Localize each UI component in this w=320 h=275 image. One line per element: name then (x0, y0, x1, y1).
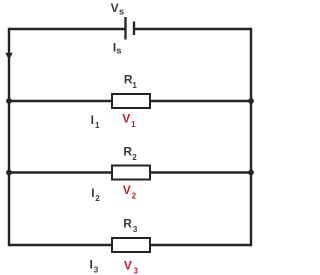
svg-text:V: V (111, 1, 119, 15)
node: junction dot left branch 2 (6, 170, 12, 176)
svg-text:V: V (124, 258, 132, 272)
wire: branch 1 horizontal (9, 100, 251, 102)
label Is (113, 40, 122, 56)
label I1 (91, 113, 100, 130)
svg-text:2: 2 (132, 192, 137, 201)
current arrow Is (down) on left rail (5, 53, 12, 60)
node: junction dot right branch 2 (248, 170, 254, 176)
wire: branch 2 horizontal (9, 171, 251, 173)
svg-text:s: s (119, 6, 124, 17)
svg-text:I: I (90, 258, 93, 272)
svg-text:1: 1 (132, 81, 137, 90)
resistor R2 box (112, 166, 150, 180)
node: junction dot right branch 1 (248, 98, 254, 104)
svg-text:2: 2 (95, 194, 100, 203)
label Vs (111, 1, 125, 17)
svg-text:3: 3 (134, 267, 139, 275)
battery cell Vs: long plate (124, 17, 126, 40)
svg-text:R: R (123, 217, 132, 231)
wire: top-right segment from battery to right corner (134, 28, 251, 30)
svg-text:I: I (91, 186, 94, 200)
battery cell Vs: short plate (133, 22, 135, 36)
svg-text:3: 3 (133, 225, 138, 234)
label R2 (123, 145, 137, 162)
svg-text:V: V (122, 111, 130, 125)
label V1 (122, 111, 136, 129)
label V2 (123, 183, 137, 200)
svg-text:s: s (116, 45, 121, 56)
svg-text:R: R (123, 145, 132, 159)
svg-text:1: 1 (131, 120, 136, 129)
svg-text:1: 1 (95, 121, 100, 130)
svg-text:I: I (91, 113, 94, 127)
wire: right vertical rail (250, 28, 252, 246)
label R1 (124, 73, 137, 90)
wire: top-left segment from left corner to battery (9, 28, 126, 30)
label I3 (90, 258, 99, 275)
label I2 (91, 186, 100, 203)
resistor R1 box (112, 94, 150, 108)
wire: bottom segment (9, 244, 251, 246)
label V3 (124, 258, 139, 275)
svg-text:3: 3 (94, 265, 99, 274)
wire: left vertical rail (8, 28, 10, 246)
label R3 (123, 217, 138, 234)
svg-text:V: V (123, 183, 131, 197)
resistor R3 box (112, 238, 150, 252)
node: junction dot left branch 1 (6, 98, 12, 104)
svg-text:2: 2 (132, 153, 137, 162)
